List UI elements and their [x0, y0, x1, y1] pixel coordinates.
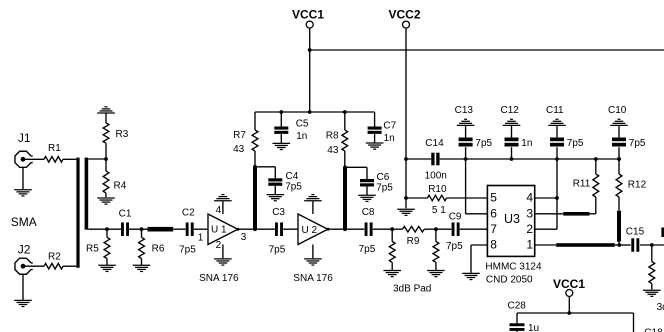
svg-text:C11: C11	[546, 105, 564, 116]
svg-text:7p5: 7p5	[359, 244, 376, 255]
svg-text:8: 8	[490, 238, 497, 252]
svg-text:R8: R8	[326, 131, 339, 142]
svg-text:6: 6	[490, 206, 497, 220]
svg-text:SMA: SMA	[11, 215, 37, 229]
svg-text:C12: C12	[501, 105, 520, 116]
svg-text:3: 3	[526, 206, 533, 220]
svg-text:7: 7	[490, 222, 497, 236]
svg-text:1n: 1n	[296, 131, 307, 142]
svg-text:C4: C4	[286, 171, 299, 182]
svg-text:1: 1	[526, 238, 533, 252]
svg-text:R1: R1	[48, 143, 61, 154]
svg-text:5: 5	[490, 191, 497, 205]
svg-text:R7: R7	[233, 130, 246, 141]
svg-text:7p5: 7p5	[446, 241, 463, 252]
svg-text:1n: 1n	[521, 138, 532, 149]
svg-text:3dB Pad: 3dB Pad	[657, 302, 664, 313]
svg-text:R3: R3	[116, 129, 129, 140]
svg-text:SNA 176: SNA 176	[293, 273, 333, 284]
svg-text:U3: U3	[504, 212, 520, 226]
svg-text:R4: R4	[114, 181, 127, 192]
svg-text:1n: 1n	[384, 133, 395, 144]
svg-text:2: 2	[216, 240, 222, 251]
svg-text:R6: R6	[152, 243, 165, 254]
svg-text:SNA 176: SNA 176	[199, 273, 239, 284]
svg-text:HMMC 3124: HMMC 3124	[485, 262, 542, 273]
svg-text:C1: C1	[119, 208, 132, 219]
svg-text:C8: C8	[362, 207, 375, 218]
svg-text:7p5: 7p5	[475, 138, 492, 149]
svg-text:R12: R12	[628, 179, 647, 190]
svg-text:R10: R10	[428, 184, 447, 195]
svg-text:C2: C2	[182, 208, 195, 219]
svg-text:C9: C9	[449, 211, 462, 222]
svg-text:J2: J2	[18, 243, 31, 257]
svg-text:C3: C3	[272, 207, 285, 218]
svg-text:C28: C28	[508, 300, 527, 311]
svg-text:C15: C15	[626, 226, 645, 237]
svg-text:1: 1	[198, 233, 204, 244]
svg-text:7p5: 7p5	[269, 244, 286, 255]
svg-text:C13: C13	[455, 105, 474, 116]
svg-text:R9: R9	[407, 236, 420, 247]
svg-text:4: 4	[216, 205, 222, 216]
svg-text:U 2: U 2	[302, 225, 318, 236]
svg-text:5 1: 5 1	[432, 205, 446, 216]
svg-text:VCC1: VCC1	[553, 277, 585, 291]
svg-text:C6: C6	[377, 172, 390, 183]
svg-text:3dB Pad: 3dB Pad	[393, 283, 431, 294]
svg-text:VCC2: VCC2	[389, 7, 421, 21]
svg-text:7p5: 7p5	[376, 182, 393, 193]
svg-text:CND 2050: CND 2050	[486, 275, 533, 286]
svg-text:VCC1: VCC1	[292, 7, 324, 21]
svg-text:R5: R5	[86, 243, 99, 254]
svg-text:C5: C5	[296, 119, 309, 130]
svg-text:7p5: 7p5	[629, 138, 646, 149]
svg-text:43: 43	[233, 144, 245, 155]
svg-text:4: 4	[526, 191, 533, 205]
svg-text:R11: R11	[573, 179, 591, 190]
svg-text:100n: 100n	[425, 170, 447, 181]
svg-text:R2: R2	[48, 252, 61, 263]
svg-text:2: 2	[526, 222, 533, 236]
svg-text:C18: C18	[644, 327, 663, 332]
svg-text:43: 43	[327, 145, 339, 156]
svg-text:C14: C14	[425, 138, 444, 149]
svg-text:U 1: U 1	[211, 224, 227, 235]
svg-text:7p5: 7p5	[567, 138, 584, 149]
svg-text:J1: J1	[18, 131, 31, 145]
svg-text:C7: C7	[383, 120, 396, 131]
svg-text:7p5: 7p5	[179, 244, 196, 255]
svg-text:1u: 1u	[528, 323, 539, 332]
svg-text:7p5: 7p5	[285, 182, 302, 193]
svg-text:C10: C10	[608, 105, 627, 116]
svg-text:3: 3	[241, 232, 247, 243]
